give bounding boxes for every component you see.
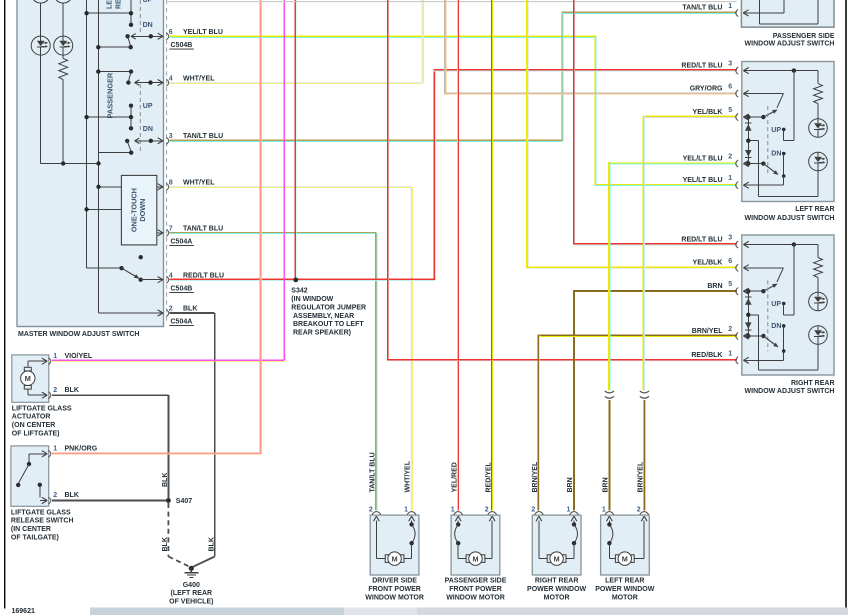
svg-text:YEL/LT BLU: YEL/LT BLU — [183, 29, 223, 36]
svg-text:BRN/YEL: BRN/YEL — [532, 461, 539, 492]
break symbol left rear motor pin2 wire — [640, 391, 649, 393]
wire PNK/ORG release pin1 — [52, 452, 261, 454]
svg-text:UP: UP — [143, 103, 153, 110]
passenger switch interior — [743, 13, 748, 16]
open contact dot above pin4-RED switch — [139, 255, 143, 259]
wire RED/LT BLU to right rear pin3 — [573, 0, 574, 243]
svg-text:G400: G400 — [183, 582, 200, 589]
svg-text:BLK: BLK — [208, 537, 215, 551]
wire BLK release pin2 — [52, 500, 168, 502]
wire RED/LT BLU pin4 via S342 to left rear pin3 — [170, 279, 435, 280]
release switch contacts — [29, 453, 42, 454]
pin1 line — [743, 185, 748, 188]
svg-text:2: 2 — [53, 387, 57, 394]
svg-text:(IN WINDOW: (IN WINDOW — [291, 296, 333, 303]
svg-text:WINDOW ADJUST SWITCH: WINDOW ADJUST SWITCH — [745, 215, 835, 222]
motor internal wiring — [538, 521, 539, 559]
svg-text:M: M — [622, 554, 628, 563]
pin5 line and blade — [743, 291, 748, 294]
wire GRY/ORG to left rear pin6 — [444, 0, 445, 92]
wire BRN/YEL right rear pin2 to right rear motor pin2 — [537, 335, 736, 337]
actuator pin1 connector — [42, 358, 47, 361]
actuator motor M symbol — [21, 371, 35, 385]
pin5 line and blade — [743, 117, 748, 120]
svg-text:(ON CENTER: (ON CENTER — [12, 422, 56, 429]
LED circle clipped top 1 — [31, 0, 50, 3]
svg-text:BLK: BLK — [65, 387, 79, 394]
svg-text:RED/LT BLU: RED/LT BLU — [681, 62, 722, 69]
svg-text:YEL/RED: YEL/RED — [451, 462, 458, 492]
UP DN ladder — [767, 106, 769, 176]
bottom rail — [758, 196, 818, 197]
switch pin3 pivot and arrow — [125, 139, 129, 143]
svg-text:DRIVER SIDE: DRIVER SIDE — [372, 578, 417, 585]
svg-text:UP: UP — [771, 301, 781, 308]
svg-text:MASTER WINDOW ADJUST SWITCH: MASTER WINDOW ADJUST SWITCH — [18, 331, 139, 338]
wire VIO/YEL actuator pin1 — [52, 360, 285, 362]
svg-text:6: 6 — [728, 84, 732, 91]
wire YEL/BLK left rear pin5 upper segment — [642, 116, 736, 118]
pin2 line and blade — [743, 336, 748, 339]
pin2 line and blade — [743, 164, 748, 167]
svg-text:ASSEMBLY, NEAR: ASSEMBLY, NEAR — [293, 313, 354, 320]
svg-text:TAN/LT BLU: TAN/LT BLU — [183, 133, 223, 140]
svg-text:ACTUATOR: ACTUATOR — [12, 414, 51, 421]
dashed mech link group2-3 — [139, 84, 141, 153]
svg-text:WHT/YEL: WHT/YEL — [405, 460, 412, 492]
svg-text:REAR SPEAKER): REAR SPEAKER) — [293, 330, 351, 337]
svg-text:6: 6 — [728, 258, 732, 265]
svg-text:C504A: C504A — [171, 239, 193, 246]
LED upper — [809, 292, 828, 311]
LED L1 master — [31, 36, 50, 55]
svg-text:BLK: BLK — [183, 306, 197, 313]
wire YEL/LT BLU left rear pin2 upper segment — [608, 162, 737, 163]
switch pin6: pivot dot, arrow, wire — [125, 34, 129, 38]
wire WHT/YEL pin4 to top — [170, 82, 423, 83]
svg-text:2: 2 — [728, 154, 732, 161]
svg-text:M: M — [554, 554, 560, 563]
wire BRN right rear pin5 to right rear motor pin1 — [573, 290, 737, 292]
svg-text:RED/YEL: RED/YEL — [485, 461, 492, 492]
svg-text:5: 5 — [728, 281, 732, 288]
contact line y=152.7 — [99, 152, 132, 153]
master window adjust switch box — [17, 0, 164, 327]
one-touch output pin7 — [157, 232, 163, 233]
wire TAN/LT BLU pin7 to driver motor pin2 — [170, 232, 377, 233]
master connector arrows and arcs — [158, 33, 163, 36]
wire BLK actuator pin2 to S407 — [52, 394, 168, 396]
LED L2 master — [54, 36, 73, 55]
svg-text:YEL/LT BLU: YEL/LT BLU — [683, 155, 723, 162]
svg-text:2: 2 — [531, 507, 535, 514]
svg-text:DN: DN — [771, 151, 781, 158]
wire LED2 vertical — [63, 3, 64, 36]
wire pin4-RED to connector — [141, 279, 163, 280]
svg-text:BLK: BLK — [162, 473, 169, 487]
svg-text:C504B: C504B — [171, 286, 193, 293]
svg-text:169621: 169621 — [12, 608, 35, 615]
svg-text:LEFT REAR: LEFT REAR — [605, 578, 644, 585]
svg-text:WHT/YEL: WHT/YEL — [183, 75, 215, 82]
wire RED/YEL to passenger motor pin2 — [491, 0, 492, 511]
svg-text:WINDOW ADJUST SWITCH: WINDOW ADJUST SWITCH — [745, 388, 835, 395]
svg-text:YEL/BLK: YEL/BLK — [693, 260, 723, 267]
svg-text:2: 2 — [369, 507, 373, 514]
wire RED/BLK to right rear pin1 — [387, 0, 388, 359]
svg-text:1: 1 — [451, 507, 455, 514]
svg-text:GRY/ORG: GRY/ORG — [690, 85, 723, 92]
svg-text:UP: UP — [143, 0, 153, 4]
svg-text:(IN CENTER: (IN CENTER — [11, 526, 51, 533]
svg-text:1: 1 — [728, 175, 732, 182]
svg-text:LIFTGATE GLASS: LIFTGATE GLASS — [12, 405, 72, 412]
svg-text:BRN/YEL: BRN/YEL — [692, 328, 723, 335]
svg-text:M: M — [473, 554, 479, 563]
one-touch input 2 — [87, 209, 122, 210]
motor symbol — [376, 558, 385, 559]
wire BLK pin2 to ground — [170, 312, 215, 314]
svg-text:3: 3 — [728, 61, 732, 68]
pin3 line arrow dot — [743, 71, 748, 74]
LED upper — [809, 119, 828, 138]
actuator pin2 connector — [42, 392, 47, 395]
wire YEL/BLK to right rear pin6 — [526, 0, 528, 267]
resistor chain — [818, 245, 819, 258]
svg-text:2: 2 — [169, 306, 173, 313]
svg-text:UP: UP — [771, 127, 781, 134]
release pin1 connector — [42, 451, 47, 454]
motor entry arcs and arrows — [535, 512, 544, 515]
svg-text:2: 2 — [637, 507, 641, 514]
svg-text:1: 1 — [53, 446, 57, 453]
svg-text:REGULATOR JUMPER: REGULATOR JUMPER — [291, 304, 366, 311]
svg-text:1: 1 — [53, 353, 57, 360]
svg-text:RED/LT BLU: RED/LT BLU — [681, 236, 722, 243]
svg-text:FRONT POWER: FRONT POWER — [368, 586, 421, 593]
DN contact group1 — [129, 23, 133, 27]
bottom scrollbar thumb — [90, 608, 344, 615]
pin6 line and drop contact — [743, 268, 748, 271]
svg-text:1: 1 — [567, 507, 571, 514]
diode chain — [746, 289, 750, 293]
svg-text:YEL/LT BLU: YEL/LT BLU — [683, 177, 723, 184]
svg-text:1: 1 — [728, 350, 732, 357]
motor symbol — [609, 558, 615, 559]
svg-text:RED/BLK: RED/BLK — [691, 352, 722, 359]
release pin2 connector — [42, 497, 47, 500]
svg-text:LIFTGATE GLASS: LIFTGATE GLASS — [11, 509, 71, 516]
svg-text:TAN/LT BLU: TAN/LT BLU — [183, 225, 223, 232]
svg-text:3: 3 — [169, 133, 173, 140]
svg-text:1: 1 — [728, 3, 732, 10]
motor entry arcs and arrows — [454, 512, 463, 515]
svg-text:8: 8 — [169, 179, 173, 186]
svg-text:POWER WINDOW: POWER WINDOW — [527, 586, 586, 593]
svg-text:S342: S342 — [291, 288, 307, 295]
svg-text:YEL/BLK: YEL/BLK — [693, 109, 723, 116]
svg-text:7: 7 — [169, 225, 173, 232]
svg-text:WINDOW ADJUST SWITCH: WINDOW ADJUST SWITCH — [745, 41, 835, 48]
LED circle clipped top 2 — [54, 0, 73, 3]
LED lower — [809, 152, 828, 171]
svg-text:BREAKOUT TO LEFT: BREAKOUT TO LEFT — [293, 321, 364, 328]
blade pin6 to contact — [128, 36, 131, 46]
svg-text:TAN/LT BLU: TAN/LT BLU — [682, 5, 722, 12]
ground G400 symbol — [189, 566, 194, 571]
wire BRN below break to left rear motor pin1 — [608, 400, 610, 511]
svg-text:VIO/YEL: VIO/YEL — [65, 353, 93, 360]
svg-text:3: 3 — [728, 235, 732, 242]
wire WHT/YEL pin8 to driver motor pin1 — [170, 186, 412, 187]
svg-text:RED/LT BLU: RED/LT BLU — [183, 272, 224, 279]
UP DN ladder — [767, 280, 769, 351]
resistor R1 master — [59, 58, 68, 79]
dashed mech link group1 — [139, 0, 141, 35]
motor symbol — [458, 558, 466, 559]
svg-text:DN: DN — [143, 126, 153, 133]
svg-text:2: 2 — [53, 492, 57, 499]
svg-text:C504A: C504A — [171, 319, 193, 326]
svg-text:BRN: BRN — [567, 477, 574, 492]
power window motor box — [451, 515, 500, 575]
master rail A x=86.6 — [86, 0, 87, 268]
bottom scrollbar right segment — [417, 608, 848, 615]
wire YEL/LT BLU pin6 to left rear pin1 — [170, 36, 596, 37]
svg-text:BRN/YEL: BRN/YEL — [637, 461, 644, 492]
svg-text:5: 5 — [728, 107, 732, 114]
wire pin2 BLK corner — [99, 313, 164, 314]
wire WHT cut at top edge — [166, 1, 737, 2]
motor internal wiring — [492, 521, 493, 559]
master rail C x=131 top — [131, 0, 132, 25]
svg-text:WHT/YEL: WHT/YEL — [183, 179, 215, 186]
wire y=13.2 rail A to DN ladder — [87, 13, 131, 14]
svg-text:C504B: C504B — [171, 42, 193, 49]
svg-text:4: 4 — [169, 75, 173, 82]
svg-text:REAR: REAR — [116, 0, 123, 9]
rear switch box — [742, 62, 834, 202]
power window motor box — [370, 515, 419, 575]
svg-text:TAN/LT BLU: TAN/LT BLU — [370, 452, 377, 492]
motor internal wiring — [376, 521, 377, 559]
svg-text:(LEFT REAR: (LEFT REAR — [170, 590, 212, 597]
right page border — [845, 0, 847, 610]
liftgate glass release switch box — [11, 446, 49, 506]
svg-text:BLK: BLK — [162, 537, 169, 551]
bottom rail — [758, 370, 818, 371]
svg-text:BRN: BRN — [603, 477, 610, 492]
mid junction y=117.1 — [87, 117, 131, 118]
LED bus y=163.5 — [41, 163, 99, 164]
svg-text:MOTOR: MOTOR — [544, 595, 570, 602]
svg-text:1: 1 — [602, 507, 606, 514]
pin1 line — [743, 360, 748, 363]
svg-text:2: 2 — [728, 326, 732, 333]
svg-text:BLK: BLK — [65, 492, 79, 499]
blade pin4 — [128, 72, 131, 82]
UP contact group2 — [129, 104, 133, 108]
svg-text:RIGHT REAR: RIGHT REAR — [791, 380, 835, 387]
svg-text:S407: S407 — [176, 498, 192, 505]
svg-text:OF LIFTGATE): OF LIFTGATE) — [12, 431, 60, 438]
svg-text:LEFT REAR: LEFT REAR — [795, 206, 834, 213]
DN contact group2 — [129, 126, 133, 130]
one-touch output pin8 — [157, 186, 163, 187]
dashed BLK S407 to ground — [167, 503, 169, 557]
svg-text:6: 6 — [169, 29, 173, 36]
svg-text:OF VEHICLE): OF VEHICLE) — [169, 599, 213, 606]
svg-text:FRONT POWER: FRONT POWER — [449, 586, 502, 593]
master rail B x=98.5 — [98, 0, 99, 313]
left page border — [4, 0, 5, 609]
contact line y=47.2 — [98, 47, 130, 48]
motor entry arcs and arrows — [372, 512, 381, 515]
wire YEL/RED to passenger motor pin1 — [457, 0, 458, 511]
motor symbol — [539, 558, 547, 559]
diode chain — [746, 115, 750, 119]
splice S342 — [293, 278, 298, 283]
power window motor box — [532, 515, 581, 575]
wire BRN/YEL below break to left rear motor pin2 — [643, 400, 645, 511]
actuator internal wires — [27, 361, 28, 367]
svg-text:OF TAILGATE): OF TAILGATE) — [11, 535, 59, 542]
svg-text:POWER WINDOW: POWER WINDOW — [595, 586, 654, 593]
svg-text:M: M — [25, 374, 31, 383]
pin6 line and drop contact — [743, 94, 748, 97]
one-touch input 1 — [99, 186, 122, 187]
svg-text:DOWN: DOWN — [138, 199, 147, 222]
UP-DN link group2 — [131, 106, 132, 129]
pin4-RED switch: rail corner and blade — [87, 268, 122, 269]
motor entry arcs and arrows — [605, 512, 614, 515]
wire LED1 vertical — [40, 3, 41, 36]
svg-text:DN: DN — [771, 323, 781, 330]
bottom scrollbar track — [90, 608, 848, 615]
svg-text:RELEASE SWITCH: RELEASE SWITCH — [11, 518, 74, 525]
liftgate glass actuator box — [12, 355, 49, 402]
svg-text:WINDOW MOTOR: WINDOW MOTOR — [365, 595, 424, 602]
svg-text:PNK/ORG: PNK/ORG — [65, 446, 98, 453]
blade pin3 — [127, 141, 131, 152]
motor internal wiring — [644, 521, 645, 559]
svg-text:PASSENGER SIDE: PASSENGER SIDE — [445, 578, 507, 585]
svg-text:M: M — [392, 554, 398, 563]
svg-text:BRN: BRN — [707, 283, 722, 290]
pin3 line arrow dot — [743, 245, 748, 248]
break symbol left rear motor pin1 wire — [605, 391, 614, 393]
svg-text:WINDOW MOTOR: WINDOW MOTOR — [446, 595, 505, 602]
svg-text:LEFT: LEFT — [107, 0, 114, 9]
svg-text:2: 2 — [485, 507, 489, 514]
svg-text:PASSENGER: PASSENGER — [106, 72, 115, 119]
rear switch box — [742, 235, 834, 375]
svg-text:1: 1 — [404, 507, 408, 514]
wire TAN/LT BLU pin3 to passenger pin1 — [170, 140, 563, 141]
splice S407 — [166, 498, 171, 503]
resistor chain — [818, 71, 819, 84]
one-touch down box — [121, 175, 156, 245]
svg-text:RIGHT REAR: RIGHT REAR — [535, 578, 579, 585]
LED lower — [809, 326, 828, 345]
svg-text:MOTOR: MOTOR — [612, 595, 638, 602]
svg-text:DN: DN — [143, 22, 153, 29]
power window motor box — [601, 515, 650, 575]
passenger side window adjust switch box — [741, 0, 834, 27]
connector C504 dashed line — [166, 0, 168, 322]
group2 upper contact line y=71.6 — [98, 71, 131, 72]
svg-text:4: 4 — [169, 272, 173, 279]
svg-text:PASSENGER SIDE: PASSENGER SIDE — [773, 33, 835, 40]
